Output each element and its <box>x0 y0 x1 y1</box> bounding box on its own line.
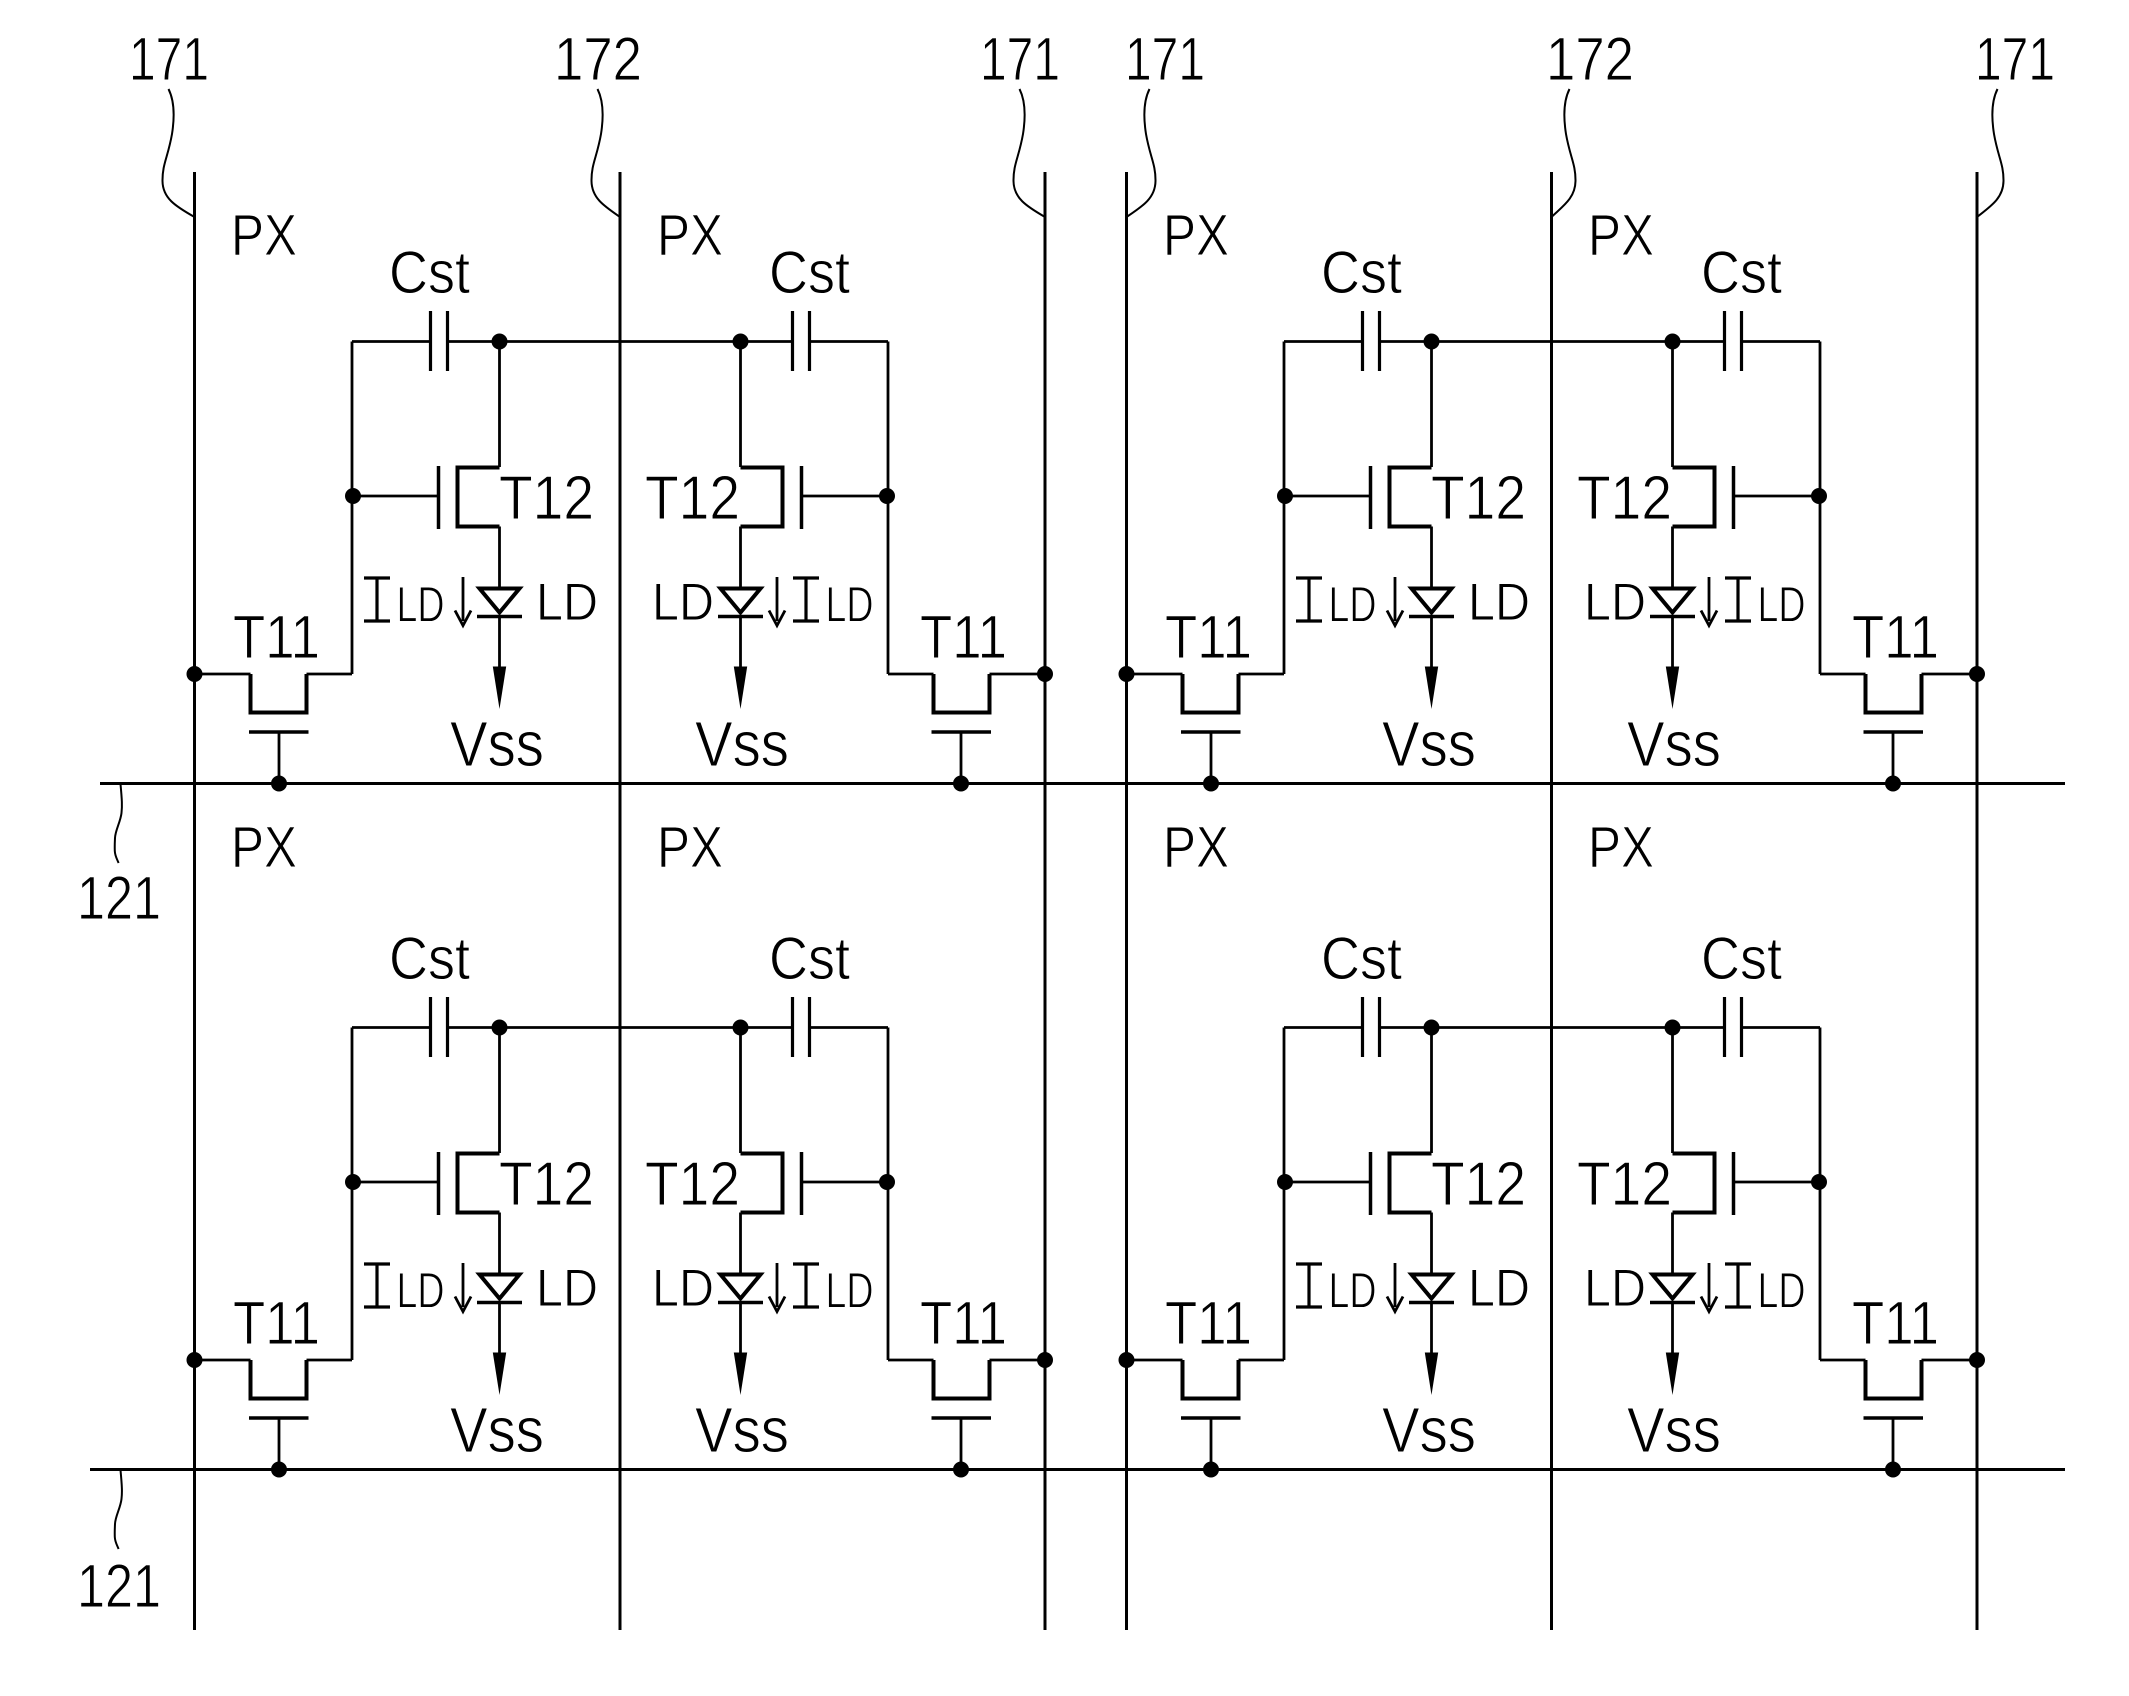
svg-text:171: 171 <box>129 25 209 93</box>
leader line <box>591 89 620 217</box>
svg-text:PX: PX <box>231 203 297 268</box>
scan line 121 row2 <box>90 1468 2065 1471</box>
pixel pair bottom-right <box>1119 925 1986 1478</box>
pixel pair top-left <box>187 239 1054 792</box>
leader line 121 <box>115 784 122 863</box>
svg-text:PX: PX <box>657 203 723 268</box>
svg-text:171: 171 <box>1975 25 2055 93</box>
svg-text:172: 172 <box>1546 25 1634 93</box>
data line 17x #4 <box>1125 172 1128 1630</box>
pixel pair bottom-left <box>187 925 1054 1478</box>
data line 17x #3 <box>1044 172 1047 1630</box>
data line 17x #6 <box>1976 172 1979 1630</box>
svg-text:PX: PX <box>1588 815 1654 880</box>
svg-text:121: 121 <box>77 864 161 932</box>
data line 17x #1 <box>193 172 196 1630</box>
svg-text:PX: PX <box>1163 203 1229 268</box>
data line 17x #2 <box>619 172 622 1630</box>
leader line <box>162 89 194 217</box>
pixel pair top-right <box>1119 239 1986 792</box>
svg-text:PX: PX <box>1588 203 1654 268</box>
svg-text:121: 121 <box>77 1552 161 1620</box>
svg-text:171: 171 <box>980 25 1060 93</box>
svg-text:172: 172 <box>554 25 642 93</box>
leader line <box>1977 89 2004 217</box>
leader line <box>1552 89 1576 217</box>
svg-text:PX: PX <box>1163 815 1229 880</box>
leader line <box>1127 89 1156 217</box>
svg-text:171: 171 <box>1125 25 1205 93</box>
scan line 121 row1 <box>100 782 2065 785</box>
leader line <box>1013 89 1045 217</box>
leader line 121 <box>115 1470 122 1549</box>
svg-text:PX: PX <box>231 815 297 880</box>
svg-text:PX: PX <box>657 815 723 880</box>
data line 17x #5 <box>1550 172 1553 1630</box>
